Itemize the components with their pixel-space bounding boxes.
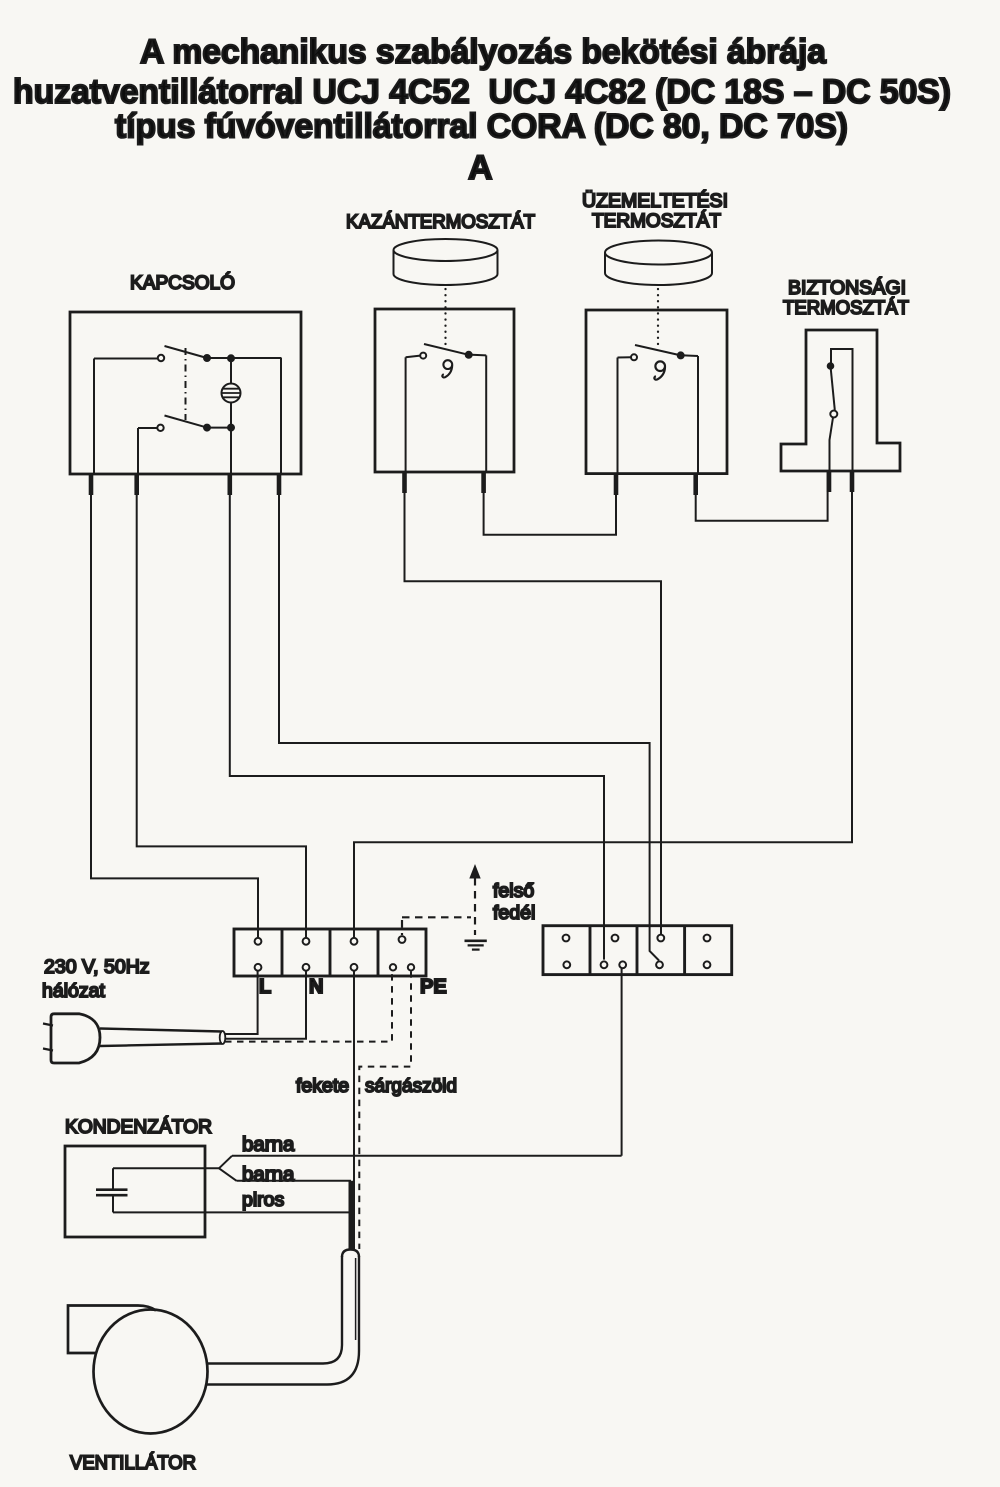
wire sargaszold dashed bbox=[359, 971, 411, 1249]
capillary dotted B2 bbox=[657, 289, 659, 350]
theta symbol B1 bbox=[442, 360, 452, 377]
arrow up bbox=[469, 864, 480, 879]
terminal X2 circles bbox=[563, 935, 711, 969]
wire fekete terminal3 down bbox=[353, 971, 355, 1249]
fan cable sleeve bbox=[206, 1250, 359, 1385]
wire S1 internal verticals bbox=[94, 358, 281, 475]
wire B1 right pin to B2 left pin bbox=[484, 472, 616, 535]
svg-text:sárgászöld: sárgászöld bbox=[365, 1075, 457, 1097]
thermostat knob B1 bbox=[394, 239, 498, 285]
pin 1 bbox=[89, 474, 94, 495]
pin 4 bbox=[277, 474, 282, 495]
switch S1a upper pole bbox=[94, 346, 281, 361]
thermostat box B1 KAZAN bbox=[375, 309, 514, 472]
wire B2 right pin to B3 left pin bbox=[696, 471, 828, 521]
mechanical link dashed bbox=[185, 348, 187, 420]
switch B1 contact bbox=[406, 344, 487, 359]
svg-text:barna: barna bbox=[242, 1163, 295, 1186]
svg-text:barna: barna bbox=[242, 1133, 295, 1156]
svg-text:KAPCSOLÓ: KAPCSOLÓ bbox=[130, 271, 235, 294]
terminal X1 circles bbox=[255, 936, 415, 971]
terminal block X1 bbox=[234, 929, 426, 976]
pin B1 left bbox=[402, 472, 407, 493]
wire S1 pin1 to terminal L bbox=[91, 474, 258, 938]
svg-text:VENTILLÁTOR: VENTILLÁTOR bbox=[70, 1451, 196, 1474]
svg-text:KONDENZÁTOR: KONDENZÁTOR bbox=[65, 1115, 212, 1138]
svg-text:BIZTONSÁGI: BIZTONSÁGI bbox=[788, 276, 906, 299]
wire S1 pin3 to block2 cell2 bbox=[230, 474, 604, 960]
pin B2 left bbox=[614, 474, 619, 495]
wire split to barna pair bbox=[219, 1156, 237, 1181]
svg-text:típus fúvóventillátorral CORA: típus fúvóventillátorral CORA (DC 80, DC… bbox=[115, 108, 848, 146]
svg-text:fedél: fedél bbox=[493, 902, 535, 924]
fan volute bbox=[94, 1310, 208, 1434]
wire barna 2 bbox=[237, 1180, 352, 1182]
svg-text:PE: PE bbox=[420, 976, 447, 998]
mains plug bbox=[51, 1014, 100, 1063]
wire B3 right pin to terminal 3 bbox=[354, 471, 852, 938]
wire barna 1 to block2 bbox=[232, 968, 622, 1156]
sleeve inner line bbox=[355, 1258, 357, 1340]
pin B3 right bbox=[850, 471, 855, 492]
mains cable bbox=[100, 1029, 222, 1047]
capacitor C1 bbox=[96, 1168, 128, 1212]
wire bundle into sleeve bbox=[349, 1181, 354, 1250]
wire B1 internal verticals bbox=[406, 355, 487, 472]
svg-text:ÜZEMELTETÉSI: ÜZEMELTETÉSI bbox=[582, 189, 728, 212]
safety thermostat body B3 bbox=[781, 330, 900, 471]
lamp H1 bbox=[222, 358, 241, 427]
wire S1 pin2 to terminal N bbox=[137, 474, 306, 938]
pin B3 left bbox=[827, 471, 832, 492]
svg-text:230 V, 50Hz: 230 V, 50Hz bbox=[44, 956, 150, 978]
pin 3 bbox=[228, 474, 233, 495]
svg-text:KAZÁNTERMOSZTÁT: KAZÁNTERMOSZTÁT bbox=[346, 210, 535, 233]
window B3 bbox=[831, 349, 853, 471]
svg-text:A mechanikus szabályozás beköt: A mechanikus szabályozás bekötési ábrája bbox=[140, 33, 827, 71]
switch box S1 KAPCSOLO bbox=[70, 312, 301, 474]
switch B3 contact bbox=[828, 363, 838, 471]
switch B2 contact bbox=[618, 345, 699, 360]
svg-text:TERMOSZTÁT: TERMOSZTÁT bbox=[592, 209, 721, 232]
pin B1 right bbox=[481, 472, 486, 493]
capacitor box C1 bbox=[65, 1146, 205, 1237]
felso fedel dashed lead bbox=[402, 878, 475, 935]
thermostat box B2 UZEM bbox=[586, 310, 727, 474]
svg-text:A: A bbox=[468, 149, 493, 187]
thermostat knob B2 bbox=[605, 241, 712, 286]
svg-text:piros: piros bbox=[242, 1189, 285, 1211]
svg-text:TERMOSZTÁT: TERMOSZTÁT bbox=[783, 296, 909, 319]
svg-text:L: L bbox=[259, 976, 271, 998]
wire B2 internal verticals bbox=[618, 356, 699, 474]
plug prongs bbox=[43, 1024, 53, 1051]
pin B2 right bbox=[693, 474, 698, 495]
svg-text:hálózat: hálózat bbox=[42, 980, 105, 1002]
theta symbol B2 bbox=[654, 361, 665, 379]
pin 2 bbox=[134, 474, 139, 495]
wire C1 top lead bbox=[113, 1167, 219, 1169]
switch S1b lower pole bbox=[138, 416, 234, 431]
wire L phase bbox=[225, 971, 258, 1034]
ground symbol bbox=[465, 941, 487, 950]
wire N neutral bbox=[225, 971, 306, 1039]
wire PE dashed to plug bbox=[225, 971, 392, 1041]
wire S1 pin4 to block2 cell3 bbox=[279, 474, 659, 961]
fan inlet bbox=[68, 1306, 156, 1354]
terminal block X2 bbox=[543, 926, 732, 975]
svg-text:N: N bbox=[309, 976, 323, 998]
capillary dotted B1 bbox=[444, 289, 446, 346]
wire piros bbox=[113, 1211, 351, 1213]
svg-text:felső: felső bbox=[493, 880, 534, 902]
svg-text:fekete: fekete bbox=[296, 1075, 349, 1097]
wire B1 left pin to block2 cell3 top bbox=[405, 472, 662, 934]
svg-text:huzatventillátorral UCJ 4C52: huzatventillátorral UCJ 4C52 UCJ 4C82 (D… bbox=[13, 73, 951, 111]
